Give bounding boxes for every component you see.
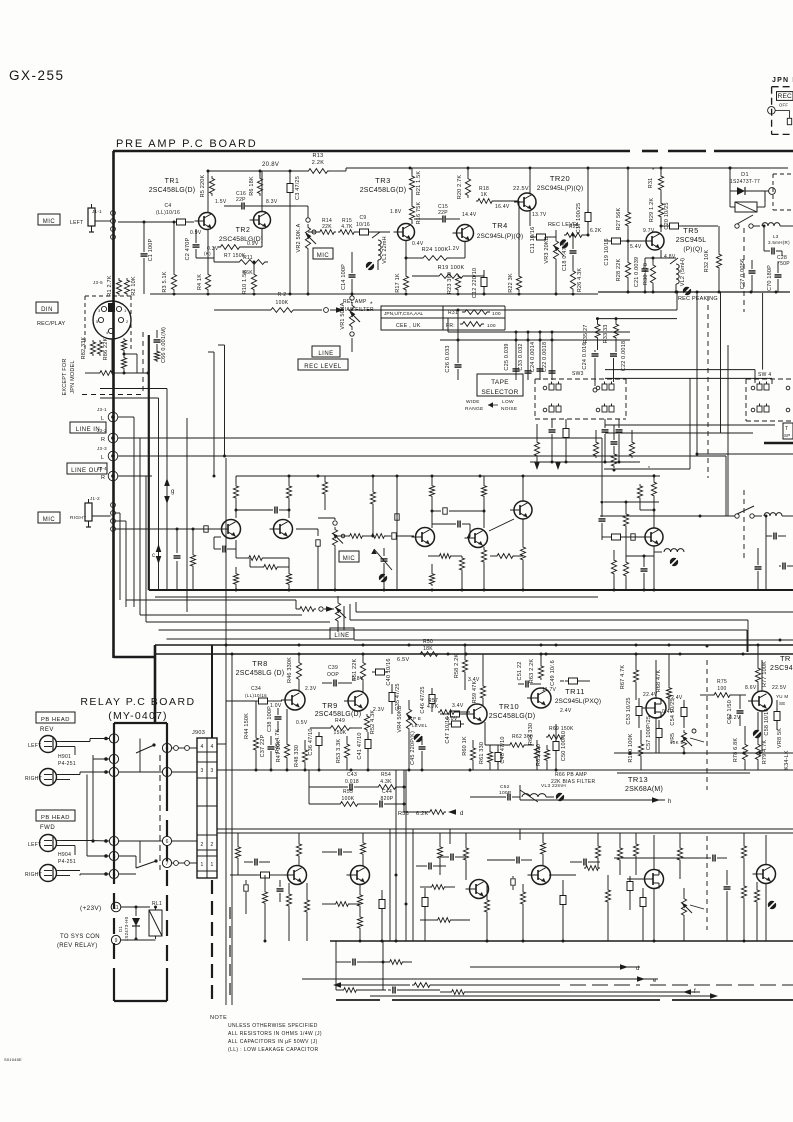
svg-text:LEVEL: LEVEL	[412, 723, 428, 728]
wire rec line stub a	[457, 310, 459, 345]
svg-text:*: *	[648, 466, 650, 472]
label note line4	[228, 1047, 318, 1053]
label LINE boxed mid2	[330, 628, 354, 639]
svg-text:C22 0.0018: C22 0.0018	[621, 341, 627, 371]
resistor bot r3	[286, 883, 291, 941]
svg-text:R44 150K: R44 150K	[244, 713, 250, 739]
label 6.5V	[397, 657, 410, 663]
capacitor C42	[440, 703, 468, 717]
svg-text:R49: R49	[335, 718, 345, 724]
capacitor C25 0.039	[504, 343, 520, 380]
resistor bot x5	[437, 833, 442, 875]
resistor R15 4.7K	[338, 218, 356, 234]
node relay pin4	[162, 743, 197, 752]
svg-text:h: h	[668, 799, 672, 805]
wire bot verticals	[390, 770, 413, 941]
resistor R46 330K	[287, 654, 302, 691]
svg-text:SW3: SW3	[572, 371, 584, 377]
svg-text:R50: R50	[423, 639, 433, 645]
wire long link y454	[696, 380, 793, 456]
svg-text:C17 100/25: C17 100/25	[576, 203, 582, 233]
resistor botR r4	[754, 882, 759, 941]
svg-text:FWD: FWD	[40, 825, 55, 831]
node relay pin6	[80, 869, 119, 878]
svg-text:14.4V: 14.4V	[462, 212, 477, 218]
svg-text:1K: 1K	[481, 192, 488, 198]
wire row sep b	[217, 832, 793, 834]
svg-text:2.3V: 2.3V	[305, 686, 317, 692]
wire bottom dashdot b	[370, 993, 718, 999]
wire bottom dashdot a	[225, 982, 793, 988]
capacitor botR c3	[724, 870, 731, 941]
svg-text:1.5V: 1.5V	[215, 199, 227, 205]
resistor R67 4.7K	[620, 654, 639, 700]
wire mid-E collector	[486, 476, 523, 531]
wire mid riser	[395, 476, 399, 590]
wire heavy dashed relay bus	[212, 880, 230, 1001]
capacitor C34	[226, 686, 282, 704]
resistor R53 3.3K	[336, 736, 350, 770]
svg-text:22P: 22P	[236, 197, 246, 203]
connector J3-1	[97, 407, 134, 422]
label H904	[58, 852, 76, 865]
connector J3-2	[97, 428, 140, 443]
svg-text:J3-5: J3-5	[93, 280, 103, 285]
svg-text:11: 11	[113, 905, 118, 911]
resistor R63 360	[529, 653, 544, 684]
svg-text:VL3: VL3	[541, 783, 550, 789]
wire line in long	[118, 438, 602, 500]
svg-text:R5 220K: R5 220K	[200, 174, 206, 197]
wire tr8 rail b	[298, 653, 745, 656]
label TAPE SPEED boxed	[783, 423, 793, 439]
capacitor C20 10/25	[660, 202, 719, 232]
label PRE AMP P.C BOARD	[116, 138, 257, 150]
resistor R75 100	[700, 679, 746, 697]
svg-text:J1-2: J1-2	[90, 496, 100, 501]
label EXCEPT FOR JPN MODEL	[62, 358, 76, 395]
svg-text:C27 0.0056: C27 0.0056	[740, 259, 746, 289]
svg-text:C39: C39	[328, 665, 338, 671]
potentiometer VR1 50KA	[340, 296, 360, 352]
capacitor C2 470P	[185, 229, 214, 260]
node relay pin2	[90, 734, 119, 743]
svg-text:4: 4	[166, 746, 169, 752]
connector J3-3	[97, 446, 146, 461]
svg-text:C18 0.47/50: C18 0.47/50	[562, 239, 568, 271]
capacitor mid c27b	[755, 548, 762, 590]
svg-text:2SC945L: 2SC945L	[676, 237, 707, 244]
svg-text:C49 10/.6: C49 10/.6	[550, 660, 556, 686]
svg-text:9: 9	[115, 938, 118, 944]
resistor R52 4.3K	[364, 710, 376, 735]
connector J1-1 MIC LEFT	[70, 204, 115, 239]
wire tr8 mid rail	[217, 769, 793, 772]
svg-text:TR9: TR9	[322, 701, 338, 710]
resistor midF re2	[623, 556, 628, 590]
svg-text:R: R	[101, 475, 105, 481]
svg-text:4.7K: 4.7K	[341, 224, 353, 230]
svg-text:100: 100	[492, 311, 501, 317]
svg-text:L: L	[101, 416, 104, 422]
switch REC (JPN model) dashed box	[768, 87, 793, 135]
resistor R51 22K	[352, 654, 366, 692]
transistor mid-A	[218, 520, 241, 539]
capacitor bot x2	[244, 859, 270, 866]
svg-text:3.4V: 3.4V	[452, 703, 464, 709]
svg-text:c: c	[152, 553, 155, 559]
svg-text:ALL RESISTORS IN OHMS 1/4W (J: ALL RESISTORS IN OHMS 1/4W (J)	[228, 1031, 322, 1037]
resistor mid hang1	[322, 476, 327, 510]
potentiometer line pot	[335, 596, 346, 632]
label TO SYS CON	[57, 934, 100, 949]
transistor TR1	[195, 213, 216, 230]
wire heavy bus DIN	[148, 335, 150, 590]
label LINE IN boxed	[70, 422, 106, 433]
resistor R86 22K	[97, 337, 109, 360]
resistor midF rx	[611, 550, 616, 590]
capacitor C70 180P	[767, 262, 782, 292]
svg-text:(LL) : LOW LEAKAGE CAPACITOR: (LL) : LOW LEAKAGE CAPACITOR	[228, 1047, 318, 1053]
resistor bot x1	[235, 833, 240, 875]
svg-text:2SC945L(P)(Q): 2SC945L(P)(Q)	[537, 185, 583, 192]
resistor R29 1.2K	[649, 192, 664, 222]
resistor R27 56K	[616, 168, 631, 230]
svg-text:R77 100K: R77 100K	[762, 661, 768, 687]
capacitor mid c3	[432, 521, 470, 538]
wire sel feed line	[448, 294, 630, 345]
capacitor midF cb	[602, 534, 645, 540]
wire dashed JPN link	[773, 174, 793, 210]
resistor midF rc2	[637, 474, 655, 512]
svg-text:C58 10/16: C58 10/16	[764, 708, 770, 735]
resistor R47 10K	[276, 709, 290, 770]
resistor R45 4.7K	[275, 729, 281, 754]
wire relay inner dashed	[159, 755, 161, 870]
svg-text:MIC: MIC	[43, 517, 56, 523]
capacitor bot c4	[379, 890, 385, 941]
resistor bot r13	[549, 866, 600, 875]
svg-text:TR20: TR20	[550, 174, 570, 183]
potentiometer mid MIC pot	[318, 476, 376, 590]
capacitor C66 0.001M	[154, 327, 168, 363]
svg-text:C41 47/10: C41 47/10	[357, 732, 363, 759]
resistor midF re	[654, 546, 684, 566]
capacitor C52 100P	[470, 784, 520, 801]
capacitor C12 220/10	[472, 268, 487, 298]
svg-text:P4-251: P4-251	[58, 761, 76, 767]
svg-text:R19 100K: R19 100K	[438, 265, 465, 271]
svg-text:OFF: OFF	[779, 103, 788, 108]
resistor R6 18K	[249, 170, 263, 197]
resistor R60 1K	[462, 736, 476, 770]
switch mid rec/pb	[699, 506, 763, 518]
resistor bot2 r2	[336, 988, 386, 993]
svg-text:R82 33K: R82 33K	[81, 336, 87, 359]
capacitor C54 10/25	[670, 698, 687, 728]
svg-text:R2 10K: R2 10K	[131, 276, 137, 296]
svg-text:2: 2	[200, 842, 203, 848]
svg-text:C24 0.0014: C24 0.0014	[530, 342, 536, 372]
resistor mid rm1	[338, 534, 364, 539]
resistor bot r11	[520, 884, 525, 941]
resistor R62 360	[485, 722, 534, 747]
node e arrow bottom	[302, 976, 658, 984]
resistor R10 1.5K	[242, 261, 257, 295]
resistor R56 6.2K	[398, 809, 464, 817]
resistor R83	[85, 371, 116, 376]
capacitor bot2 c1	[336, 959, 368, 966]
capacitor C43 0.018	[309, 772, 368, 791]
svg-text:2.4V: 2.4V	[560, 708, 572, 714]
resistor mid r14	[520, 519, 525, 590]
switch relay sw2	[136, 859, 158, 868]
capacitor C37 22P	[260, 734, 275, 770]
switch SW3 box	[535, 371, 626, 419]
svg-text:J3-3: J3-3	[97, 446, 107, 451]
label MIC boxed left-top	[38, 214, 60, 225]
inductor VL2 5mH	[661, 258, 691, 295]
resistor mid r12	[459, 556, 464, 590]
svg-text:L: L	[101, 455, 104, 461]
label MIC boxed mid	[339, 551, 359, 562]
svg-text:C43: C43	[347, 772, 357, 778]
svg-text:R78 6.8K: R78 6.8K	[733, 738, 739, 763]
svg-text:C40 10/16: C40 10/16	[386, 658, 392, 685]
svg-text:C26 0.033: C26 0.033	[445, 345, 451, 372]
transistor midF	[641, 528, 663, 546]
svg-text:1.2V: 1.2V	[448, 246, 460, 252]
node g arrows	[164, 478, 174, 504]
svg-text:*: *	[652, 168, 655, 174]
svg-text:R58 2.2K: R58 2.2K	[454, 654, 460, 679]
svg-text:C22 0.0018: C22 0.0018	[542, 342, 548, 372]
transistor mid-B	[270, 520, 293, 539]
svg-text:2.2K: 2.2K	[312, 160, 325, 166]
svg-text:TR5: TR5	[683, 226, 699, 235]
wire vert 697	[696, 291, 699, 381]
wire stage3 ground rail	[598, 291, 790, 294]
wire DIN output bus	[93, 339, 112, 373]
potentiometer VR5 10KB	[670, 730, 692, 753]
wire stage2 ground rail	[346, 293, 598, 296]
svg-text:5: 5	[113, 854, 116, 860]
svg-text:C36 47/10: C36 47/10	[308, 728, 314, 755]
svg-text:CEE , UK: CEE , UK	[396, 323, 421, 329]
svg-text:C14 100P: C14 100P	[341, 264, 347, 290]
label H901	[58, 754, 76, 767]
wire line pot feed	[120, 600, 296, 607]
svg-text:JPN,U/T,CSA,AAL: JPN,U/T,CSA,AAL	[384, 311, 424, 317]
resistor mid r1	[233, 476, 238, 518]
connector DIN J3-5	[93, 280, 131, 339]
transistor TR2	[219, 212, 271, 244]
svg-text:C53 10/25: C53 10/25	[626, 697, 632, 724]
svg-text:RIGHT: RIGHT	[25, 776, 42, 782]
wire right rails	[614, 752, 793, 774]
capacitor bot x7	[570, 859, 600, 866]
svg-text:C11 10/16: C11 10/16	[530, 227, 536, 254]
svg-text:GX-255: GX-255	[9, 68, 65, 83]
resistor R23 360	[447, 272, 461, 294]
svg-text:2: 2	[210, 842, 213, 848]
resistor bot2 r1	[368, 960, 412, 965]
capacitor C15 22P	[414, 204, 477, 223]
wire TR20 collector	[529, 168, 531, 226]
svg-text:R23 360: R23 360	[447, 272, 453, 294]
svg-text:R55: R55	[343, 789, 353, 795]
svg-text:TR: TR	[780, 654, 791, 663]
svg-text:S01045E: S01045E	[4, 1057, 22, 1062]
svg-text:C1 100P: C1 100P	[148, 238, 154, 261]
svg-text:R20 2.7K: R20 2.7K	[457, 175, 463, 200]
svg-text:J3-2: J3-2	[97, 428, 107, 433]
capacitor C51 220	[517, 662, 541, 688]
wire tr12 wiring	[643, 660, 762, 753]
svg-text:R27 56K: R27 56K	[616, 207, 622, 230]
wire line out long	[118, 456, 726, 516]
capacitor C3 47/25	[287, 170, 301, 295]
svg-text:R: R	[101, 437, 105, 443]
svg-text:T: T	[785, 426, 788, 432]
svg-text:2SC458LG(D): 2SC458LG(D)	[360, 187, 407, 194]
svg-text:100: 100	[717, 686, 726, 692]
wire din drop 224	[218, 345, 226, 458]
svg-text:(P)(Q): (P)(Q)	[683, 246, 702, 253]
svg-text:R17 1K: R17 1K	[395, 273, 401, 293]
svg-text:WIDE: WIDE	[466, 399, 480, 405]
svg-text:100K: 100K	[276, 300, 289, 306]
resistor mid r15	[486, 547, 523, 558]
svg-text:8: 8	[113, 839, 116, 845]
wire mic input to TR1 base	[118, 222, 202, 236]
svg-text:R28 22K: R28 22K	[616, 258, 622, 281]
node relay pin3	[93, 754, 119, 841]
label TR1	[149, 178, 196, 194]
resistor mid r5	[250, 558, 289, 569]
label LINE OUT boxed	[67, 463, 107, 474]
svg-text:f: f	[694, 989, 696, 995]
svg-text:J1-1: J1-1	[92, 209, 102, 214]
wire heavy tape speed	[764, 421, 793, 443]
capacitor C1 100P	[141, 221, 155, 295]
svg-text:C24 0.016: C24 0.016	[582, 342, 588, 369]
resistor bot r8	[420, 885, 455, 890]
svg-text:C37 22P: C37 22P	[260, 734, 266, 757]
capacitor mid cin	[196, 526, 218, 532]
wire c feed	[100, 398, 159, 590]
capacitor C22b 0.0018	[610, 341, 627, 382]
wire except-jpn dashed	[82, 332, 143, 395]
resistor botR r3	[741, 833, 746, 870]
label LINE boxed mid	[312, 346, 340, 357]
resistor mid rhang	[190, 529, 195, 590]
wire right links	[344, 602, 793, 640]
svg-text:R3 5.1K: R3 5.1K	[162, 271, 168, 292]
capacitor bot c1	[322, 849, 352, 856]
wire tr8 rail a	[155, 653, 793, 655]
wire heavy mid gnd	[149, 589, 793, 591]
resistor R31 top	[648, 168, 664, 192]
wire J903 pin4 out	[217, 701, 226, 744]
resistor R58 2.2K	[454, 645, 468, 690]
svg-text:UNLESS OTHERWISE SPECIFIED: UNLESS OTHERWISE SPECIFIED	[228, 1023, 318, 1029]
wire tape sel gnd	[530, 458, 640, 470]
capacitor C47 10/16	[445, 716, 464, 743]
capacitor C14 100P	[341, 252, 356, 296]
capacitor bot c5	[416, 863, 446, 870]
capacitor C26 0.033	[445, 345, 462, 380]
svg-text:6: 6	[166, 839, 169, 845]
svg-text:R31: R31	[448, 310, 458, 316]
wire mic right feed	[115, 513, 221, 607]
svg-text:R53 3.3K: R53 3.3K	[336, 739, 342, 764]
capacitor bot x6	[422, 888, 428, 941]
capacitor bot c9	[511, 876, 523, 890]
resistor mid rm2	[364, 534, 386, 539]
node relay pin6b	[162, 836, 197, 845]
wire mid gnd rail a	[235, 589, 656, 592]
resistor R61 330	[479, 742, 493, 770]
resistor mid r7	[286, 558, 291, 590]
svg-text:R51 22K: R51 22K	[352, 658, 358, 681]
resistor line r	[296, 600, 334, 612]
switch SW4 contacts	[751, 382, 790, 413]
resistor R28 22K	[616, 241, 631, 292]
transistor mid-E	[510, 501, 532, 519]
svg-text:2SC458LG (D): 2SC458LG (D)	[236, 670, 285, 677]
wire right links down	[706, 620, 782, 652]
capacitor C24 0.0014	[530, 342, 544, 380]
transistor TR20	[513, 174, 583, 218]
capacitor bot c7	[487, 857, 532, 864]
svg-text:SW 4: SW 4	[758, 372, 771, 378]
capacitor bot c6	[440, 854, 466, 861]
svg-text:R64 330: R64 330	[528, 723, 534, 745]
wire bot rail heavy	[330, 940, 793, 943]
transistor mid-C	[412, 528, 435, 547]
svg-text:R30 470: R30 470	[643, 263, 649, 285]
resistor R50 18K	[418, 639, 440, 656]
label doc number	[4, 1057, 22, 1062]
svg-text:DIN: DIN	[41, 307, 53, 313]
capacitor C41 47/10	[357, 732, 371, 770]
svg-text:TR8: TR8	[252, 659, 268, 668]
label RELAY P.C BOARD	[80, 696, 195, 722]
svg-text:7: 7	[166, 861, 169, 867]
svg-text:R10 1.5K: R10 1.5K	[242, 270, 248, 295]
svg-text:C3 47/25: C3 47/25	[295, 176, 301, 200]
svg-text:SP: SP	[784, 433, 791, 438]
capacitor C21 0.0039	[634, 257, 649, 292]
resistor bot r4	[304, 883, 309, 941]
node relay pin7	[162, 858, 197, 867]
transistor TR11	[527, 687, 601, 714]
svg-text:R46 330K: R46 330K	[287, 657, 293, 683]
resistor R35 27	[583, 319, 600, 350]
svg-text:R60 1K: R60 1K	[462, 736, 468, 756]
svg-text:8.2V: 8.2V	[729, 715, 741, 721]
svg-text:g: g	[171, 489, 175, 495]
label REC LEVEL	[548, 222, 580, 228]
svg-text:PRE AMP P.C BOARD: PRE AMP P.C BOARD	[116, 138, 257, 150]
svg-text:MIC: MIC	[317, 253, 330, 259]
transistor TR12 fet	[642, 692, 683, 718]
svg-text:C70 180P: C70 180P	[767, 265, 773, 291]
resistor mid r6	[233, 567, 238, 590]
node relay pin5	[87, 775, 119, 861]
capacitor C46 47/25	[420, 686, 435, 713]
